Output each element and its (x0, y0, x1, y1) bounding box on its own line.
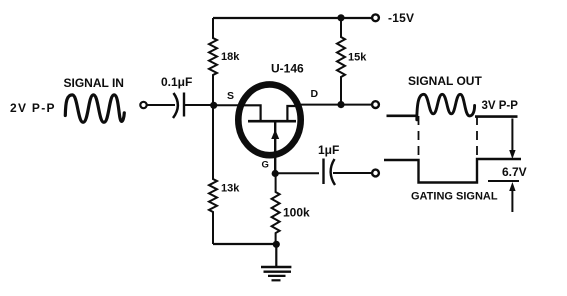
svg-text:3V P-P: 3V P-P (482, 100, 519, 112)
terminal gating input (372, 170, 379, 177)
svg-text:U-146: U-146 (271, 62, 304, 76)
ground (261, 244, 291, 280)
svg-text:D: D (311, 88, 319, 100)
resistor 18k (209, 18, 217, 105)
terminal -15V (372, 14, 379, 21)
resistor 13k (209, 105, 217, 244)
waveform input sine (65, 95, 124, 122)
svg-text:15k: 15k (348, 52, 367, 64)
terminal signal input (140, 102, 146, 108)
node D (337, 101, 344, 108)
wire top supply rail (213, 17, 341, 19)
svg-text:SIGNAL OUT: SIGNAL OUT (408, 74, 482, 88)
svg-text:SIGNAL IN: SIGNAL IN (64, 76, 124, 90)
dimension reference tick (488, 180, 519, 182)
wire D node to output terminal (341, 104, 372, 106)
waveform output signal (387, 115, 418, 118)
resistor 100k (272, 174, 280, 245)
resistor 15k (337, 18, 345, 105)
svg-text:13k: 13k (221, 183, 240, 195)
capacitor 0.1uF (173, 93, 213, 119)
dashed guide right (476, 116, 478, 181)
terminal signal output (372, 101, 379, 108)
svg-text:6.7V: 6.7V (502, 165, 527, 179)
wire drain to D node (301, 104, 341, 106)
svg-text:G: G (262, 160, 269, 171)
capacitor 1uF (324, 159, 372, 186)
svg-text:1μF: 1μF (318, 143, 339, 157)
waveform output baseline right (475, 115, 518, 118)
transistor U-146 JFET (238, 84, 300, 173)
svg-text:2V P-P: 2V P-P (10, 101, 56, 115)
svg-text:100k: 100k (283, 205, 310, 219)
svg-text:18k: 18k (221, 51, 240, 63)
wire input terminal to capacitor (147, 104, 175, 106)
dimension lower arrow 6.7V (509, 182, 515, 212)
svg-text:0.1μF: 0.1μF (161, 75, 192, 89)
node G (272, 170, 279, 177)
wire gate to coupling capacitor (275, 172, 319, 174)
node top junction (337, 14, 344, 21)
wire rail to -15V terminal (341, 17, 372, 19)
wire S node to transistor (214, 104, 240, 106)
node S (210, 102, 217, 109)
node bottom junction (273, 241, 280, 248)
wire bottom rail (213, 243, 277, 245)
svg-text:S: S (227, 90, 234, 102)
waveform gating square (384, 159, 521, 183)
svg-text:GATING SIGNAL: GATING SIGNAL (411, 191, 498, 203)
dimension upper arrow 6.7V (509, 119, 515, 160)
svg-text:-15V: -15V (388, 11, 414, 25)
dashed guide left (418, 116, 420, 181)
